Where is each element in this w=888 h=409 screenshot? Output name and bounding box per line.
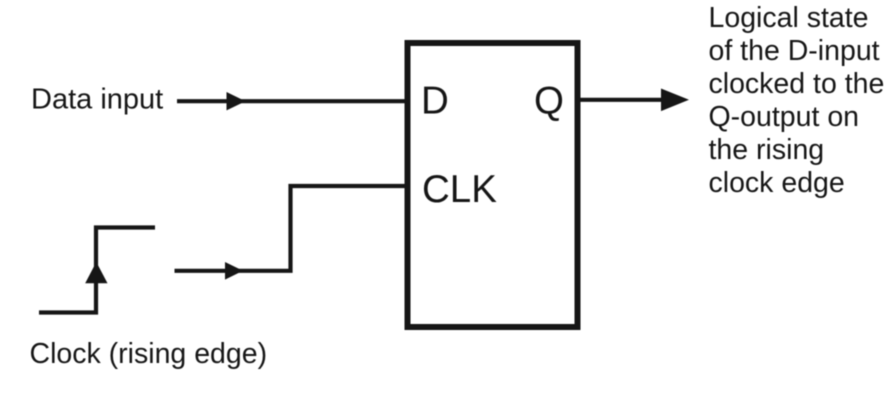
D flip-flop body U1: [408, 43, 578, 327]
arrowhead on clock input wire: [225, 262, 243, 280]
svg-text:D: D: [421, 80, 449, 123]
svg-text:the rising: the rising: [709, 134, 825, 166]
svg-text:Q: Q: [534, 80, 564, 123]
arrowhead on Q output wire: [661, 89, 689, 112]
wire: data input line to D pin: [177, 99, 406, 103]
clock rising-edge waveform symbol: [39, 228, 155, 313]
svg-text:Q-output on: Q-output on: [709, 101, 860, 133]
svg-text:clocked to the: clocked to the: [709, 68, 885, 100]
svg-text:Data input: Data input: [31, 83, 163, 115]
svg-text:Logical state: Logical state: [709, 2, 869, 34]
arrowhead on data input wire: [227, 92, 246, 110]
wire: Q output line: [578, 98, 666, 102]
wire: clock input to CLK pin (horizontal, up, horizontal): [175, 186, 407, 271]
svg-text:CLK: CLK: [422, 168, 497, 211]
up arrowhead on clock waveform edge: [85, 262, 107, 283]
svg-text:Clock (rising edge): Clock (rising edge): [30, 338, 268, 370]
svg-text:of the D-input: of the D-input: [709, 35, 880, 67]
svg-text:clock edge: clock edge: [709, 167, 845, 199]
